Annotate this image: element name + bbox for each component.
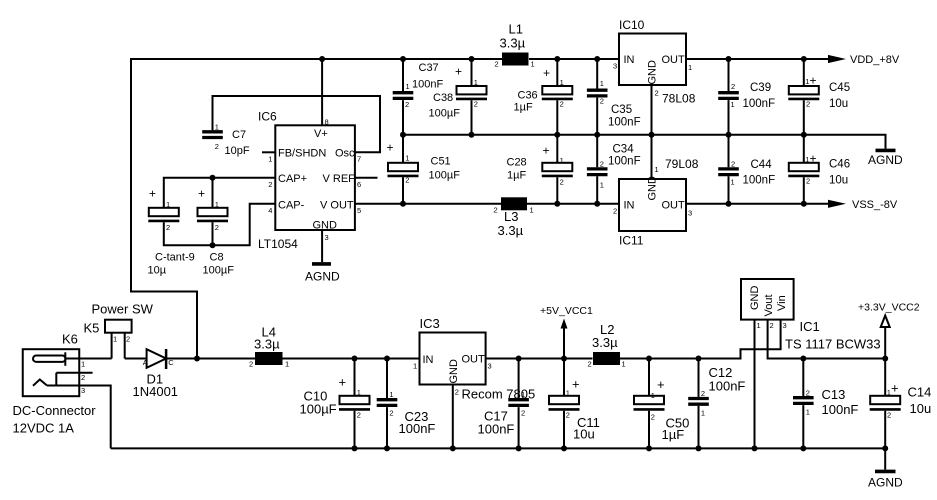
node C39 top junction [726, 56, 732, 62]
ground rail bottom [111, 447, 886, 449]
node C12 main rail junction [696, 356, 702, 362]
svg-text:C44: C44 [751, 159, 773, 171]
wire L4 to IC3 IN [283, 358, 420, 360]
svg-text:Osc: Osc [335, 148, 355, 160]
node CAP+ / C7 / C8 junction [210, 175, 216, 181]
node ground rail AGND corner [882, 445, 888, 451]
svg-text:IC1: IC1 [800, 319, 820, 334]
wire IC10 GND pin 2 to mid rail [651, 85, 653, 135]
svg-text:+: + [810, 151, 817, 165]
wire K5 pin 2 to diode D1 anode [125, 358, 147, 360]
svg-text:IC3: IC3 [420, 316, 440, 331]
svg-text:4: 4 [268, 206, 272, 215]
node ground rail C12 [696, 445, 702, 451]
K6 sleeve chevron symbol [33, 380, 47, 386]
node C23 main rail junction [384, 356, 390, 362]
svg-text:+: + [455, 65, 462, 79]
svg-text:VSS_-8V: VSS_-8V [852, 199, 898, 211]
node C10 main rail junction [352, 356, 358, 362]
svg-text:C46: C46 [829, 159, 850, 171]
regulator IC10 78L08 box [619, 34, 686, 86]
svg-text:100nF: 100nF [822, 402, 859, 417]
svg-text:OUT: OUT [662, 54, 686, 66]
svg-text:2: 2 [405, 100, 409, 109]
capacitor C44 100nF [728, 135, 730, 204]
capacitor C51 100uF (polarized) [402, 135, 404, 204]
IC IC6 LT1054 charge pump box [275, 125, 355, 230]
svg-text:1: 1 [113, 335, 117, 344]
wire IC11 GND pin 1 to mid rail [651, 135, 653, 179]
svg-text:2: 2 [566, 411, 570, 420]
svg-text:C-tant-9: C-tant-9 [155, 252, 195, 264]
svg-text:2: 2 [600, 160, 604, 169]
wire IC6 pin 3 GND down to AGND [321, 230, 323, 262]
svg-text:2: 2 [731, 160, 735, 169]
svg-text:2: 2 [731, 82, 735, 91]
ground AGND top right [876, 149, 896, 153]
svg-text:+: + [657, 377, 665, 392]
node C36 top junction [554, 56, 560, 62]
svg-text:2: 2 [806, 100, 810, 109]
svg-text:IC11: IC11 [619, 234, 644, 248]
wire IC3 OUT to L2 [486, 358, 593, 360]
svg-text:Vin: Vin [776, 295, 788, 311]
svg-text:OUT: OUT [662, 200, 686, 212]
node VSS rail C46 junction [801, 201, 807, 207]
svg-text:C36: C36 [518, 90, 538, 102]
wire IC6 pin 4 CAP- line to C-tant-9/C8 bottoms [164, 204, 275, 246]
capacitor C14 10u (polarized) [884, 359, 886, 449]
svg-text:3.3µ: 3.3µ [592, 335, 618, 350]
node VSS rail C28 junction [554, 201, 560, 207]
node +5V / C11 main rail junction [561, 356, 567, 362]
svg-text:1: 1 [406, 82, 410, 91]
capacitor C8 100uF (polarized) [198, 208, 228, 216]
node ground rail C23 [384, 445, 390, 451]
svg-text:+: + [543, 144, 550, 158]
node VSS rail C34 junction [594, 201, 600, 207]
svg-text:+: + [387, 141, 394, 155]
VSS_-8V arrow [828, 200, 846, 208]
svg-text:100nF: 100nF [478, 422, 515, 437]
svg-text:2: 2 [166, 223, 170, 232]
capacitor C38 100uF (polarized) [471, 59, 473, 135]
svg-text:1: 1 [757, 321, 761, 330]
ground AGND bottom right [884, 448, 886, 469]
node mid rail C35/C34 junction [594, 132, 600, 138]
wire K6 pin 3 to ground rail [47, 386, 111, 449]
capacitor C10 100uF (polarized) [354, 359, 356, 449]
wire IC10 OUT to VDD arrow [686, 58, 829, 60]
svg-text:1: 1 [731, 178, 735, 187]
wire top rail segment L1 to IC10 IN [529, 58, 619, 60]
svg-text:GND: GND [313, 220, 338, 232]
wire IC6 pin 8 V+ to top rail [321, 59, 323, 125]
svg-text:1: 1 [268, 155, 272, 164]
svg-text:C37: C37 [419, 62, 439, 74]
svg-text:2: 2 [806, 389, 810, 398]
inductor L1 3.3u [502, 53, 529, 66]
node ground rail IC3 GND [450, 445, 456, 451]
svg-text:1: 1 [806, 408, 810, 417]
svg-text:AGND: AGND [868, 476, 903, 490]
node ground rail C11 [561, 445, 567, 451]
svg-text:100nF: 100nF [608, 156, 641, 168]
node ground rail C13 [800, 445, 806, 451]
svg-text:1: 1 [357, 388, 361, 397]
wire IC11 OUT to VSS arrow [686, 203, 829, 205]
svg-text:1: 1 [600, 79, 604, 88]
svg-text:1: 1 [166, 200, 170, 209]
svg-text:1: 1 [560, 78, 564, 87]
svg-text:3: 3 [325, 233, 329, 242]
svg-text:AGND: AGND [868, 153, 903, 167]
svg-text:+: + [339, 375, 347, 390]
svg-text:1µF: 1µF [514, 102, 533, 114]
svg-text:GND: GND [647, 176, 659, 201]
node VSS rail C51 junction [400, 201, 406, 207]
svg-text:79L08: 79L08 [665, 157, 699, 171]
svg-text:C14: C14 [908, 385, 932, 400]
wire IC6 pin 1 FB/SHDN stub [262, 151, 275, 153]
svg-text:IC10: IC10 [619, 18, 645, 32]
svg-text:A: A [143, 358, 148, 367]
regulator IC1 TS 1117 BCW33 box [741, 279, 794, 320]
svg-text:100nF: 100nF [743, 98, 776, 110]
wire C8 top to junction [212, 178, 214, 208]
capacitor C12 100nF [698, 359, 700, 449]
svg-text:2: 2 [770, 321, 774, 330]
switch K5 Power SW [105, 320, 132, 333]
svg-text:78L08: 78L08 [662, 92, 696, 106]
node mid rail C38 junction [469, 132, 475, 138]
svg-text:GND: GND [448, 359, 460, 384]
node C8 bottom junction [210, 242, 216, 248]
svg-text:DC-Connector: DC-Connector [13, 403, 97, 418]
node +3.3V / C14 rail junction [882, 356, 888, 362]
svg-text:1: 1 [405, 154, 409, 163]
svg-text:2: 2 [455, 388, 459, 397]
node ground rail IC1 GND [752, 445, 758, 451]
svg-text:10pF: 10pF [225, 145, 250, 157]
inductor L3 3.3u [501, 197, 527, 210]
svg-text:1: 1 [560, 156, 564, 165]
svg-text:2: 2 [357, 411, 361, 420]
svg-text:Power SW: Power SW [92, 302, 154, 317]
svg-text:GND: GND [749, 286, 761, 311]
svg-text:2: 2 [81, 373, 85, 382]
capacitor C39 100nF [728, 59, 730, 135]
svg-text:100nF: 100nF [412, 79, 443, 91]
node C45 top junction [801, 56, 807, 62]
svg-text:2: 2 [215, 223, 219, 232]
svg-text:10u: 10u [829, 98, 848, 110]
svg-text:1: 1 [215, 200, 219, 209]
svg-text:5: 5 [357, 206, 361, 215]
svg-text:CAP-: CAP- [278, 199, 305, 211]
capacitor C50 1uF (polarized) [648, 359, 650, 449]
svg-text:C7: C7 [232, 129, 246, 141]
svg-text:100µF: 100µF [300, 402, 337, 417]
svg-text:L3: L3 [504, 209, 518, 224]
svg-text:3: 3 [81, 386, 85, 395]
svg-text:3: 3 [488, 362, 492, 371]
svg-text:2: 2 [521, 409, 525, 418]
svg-text:2: 2 [495, 60, 499, 69]
svg-text:100nF: 100nF [399, 421, 436, 436]
wire IC1 Vout pin 2 to 3.3V rail [768, 320, 886, 359]
wire IC1 GND pin 1 to ground rail [754, 320, 756, 449]
svg-text:2: 2 [560, 100, 564, 109]
svg-text:AGND: AGND [305, 270, 340, 284]
svg-text:7: 7 [357, 155, 361, 164]
svg-text:1: 1 [688, 63, 692, 72]
node mid rail C37/C51 junction [400, 132, 406, 138]
wire L2 to IC1 Vin [619, 320, 781, 359]
svg-text:K6: K6 [62, 332, 78, 347]
svg-text:FB/SHDN: FB/SHDN [278, 148, 326, 160]
svg-text:V+: V+ [314, 128, 328, 140]
svg-text:1: 1 [731, 100, 735, 109]
svg-text:1: 1 [389, 390, 393, 399]
node mid rail C45/C46 junction [801, 132, 807, 138]
inductor L2 3.3u [593, 352, 620, 365]
capacitor C35 100nF [596, 59, 598, 135]
svg-text:C28: C28 [507, 157, 527, 169]
node mid rail C36/C28 junction [554, 132, 560, 138]
svg-text:L1: L1 [509, 22, 523, 37]
svg-text:IN: IN [624, 54, 635, 66]
capacitor C37 100nF [402, 59, 404, 135]
capacitor C36 1uF (polarized) [556, 59, 558, 135]
svg-text:2: 2 [887, 411, 891, 420]
svg-text:2: 2 [494, 206, 498, 215]
diode D1 1N4001 [147, 349, 167, 368]
svg-text:CAP+: CAP+ [278, 173, 307, 185]
svg-text:VDD_+8V: VDD_+8V [850, 54, 900, 66]
node mid rail C39/C44 junction [726, 132, 732, 138]
svg-text:3.3µ: 3.3µ [254, 337, 280, 352]
svg-text:1: 1 [531, 60, 535, 69]
svg-text:2: 2 [806, 177, 810, 186]
svg-text:100nF: 100nF [608, 117, 641, 129]
svg-text:TS 1117 BCW33: TS 1117 BCW33 [785, 337, 881, 352]
svg-text:12VDC 1A: 12VDC 1A [13, 421, 75, 436]
svg-text:+: + [198, 187, 205, 201]
svg-text:2: 2 [600, 97, 604, 106]
svg-text:10u: 10u [910, 401, 932, 416]
svg-text:10u: 10u [829, 175, 848, 187]
capacitor C46 10u (polarized) [803, 135, 805, 204]
svg-text:2: 2 [389, 409, 393, 418]
svg-text:GND: GND [647, 60, 659, 85]
svg-text:1µF: 1µF [507, 170, 526, 182]
node ground rail C10 [352, 445, 358, 451]
svg-text:2: 2 [249, 360, 253, 369]
svg-text:+: + [149, 187, 156, 201]
svg-text:1: 1 [701, 409, 705, 418]
svg-text:8: 8 [325, 118, 329, 127]
svg-text:100µF: 100µF [429, 170, 461, 182]
capacitor C23 100nF [386, 359, 388, 449]
svg-text:IN: IN [624, 200, 635, 212]
svg-text:K5: K5 [84, 321, 100, 336]
wire top VDD rail left segment with left feed riser down to bottom section [131, 59, 502, 359]
svg-text:C45: C45 [829, 82, 850, 94]
svg-text:10u: 10u [573, 427, 595, 442]
node +5V_VCC1 supply arrow [563, 329, 565, 359]
wire VSS rail L3 to IC11 IN [527, 203, 619, 205]
svg-text:10µ: 10µ [148, 265, 167, 277]
node ground rail C50 [646, 445, 652, 451]
capacitor C28 1uF (polarized) [556, 135, 558, 204]
capacitor C13 100nF [802, 359, 804, 449]
svg-text:2: 2 [474, 100, 478, 109]
svg-text:2: 2 [268, 180, 272, 189]
svg-text:C35: C35 [611, 104, 632, 116]
node C13 3.3V rail junction [800, 356, 806, 362]
svg-text:C8: C8 [210, 252, 224, 264]
svg-text:3: 3 [613, 62, 617, 71]
svg-text:LT1054: LT1054 [258, 237, 298, 251]
ground AGND below IC6 [312, 262, 331, 266]
svg-text:1: 1 [600, 181, 604, 190]
svg-text:+: + [891, 381, 899, 396]
svg-text:1: 1 [81, 360, 85, 369]
svg-text:1: 1 [651, 391, 655, 400]
svg-text:1: 1 [655, 165, 659, 174]
svg-text:100µF: 100µF [429, 108, 461, 120]
capacitor C34 100nF [596, 135, 598, 204]
svg-text:3: 3 [688, 209, 692, 218]
svg-text:+: + [543, 66, 550, 80]
K6 center pin symbol [33, 356, 66, 362]
node VSS rail C44 junction [726, 201, 732, 207]
svg-text:2: 2 [651, 413, 655, 422]
capacitor C45 10u (polarized) [803, 59, 805, 135]
wire IC6 pin 2 CAP+ line to C7 bottom and C-tant-9 top [164, 178, 275, 208]
svg-text:OUT: OUT [462, 354, 486, 366]
wire D1 cathode to L4 [166, 358, 255, 360]
VDD_+8V arrow [828, 55, 846, 63]
wire IC6 pin 6 V REF stub [355, 177, 378, 179]
wire K6 pin 1 to switch K5 pin 1 [65, 358, 111, 360]
svg-text:IN: IN [423, 354, 434, 366]
svg-text:2: 2 [701, 389, 705, 398]
wire AGND mid rail [403, 135, 886, 149]
svg-text:2: 2 [405, 175, 409, 184]
svg-text:C38: C38 [433, 92, 453, 104]
node +3.3V_VCC2 supply arrow (open) [884, 327, 886, 359]
regulator IC3 Recom 7805 box [420, 333, 486, 385]
wire VSS rail V OUT to L3 [355, 203, 501, 205]
regulator IC11 79L08 box [619, 179, 686, 231]
svg-text:1: 1 [215, 123, 219, 132]
node C37 top junction [400, 56, 406, 62]
wire IC3 GND pin 2 to ground rail [452, 385, 454, 449]
svg-text:2: 2 [588, 360, 592, 369]
svg-text:1: 1 [474, 78, 478, 87]
node mid rail regulators GND junction [649, 132, 655, 138]
svg-text:2: 2 [655, 89, 659, 98]
svg-text:100µF: 100µF [203, 265, 235, 277]
node C17 main rail junction [516, 356, 522, 362]
svg-text:1: 1 [521, 390, 525, 399]
svg-text:1: 1 [413, 362, 417, 371]
node V+ junction on top rail [319, 56, 325, 62]
svg-text:C51: C51 [431, 156, 451, 168]
svg-text:C34: C34 [613, 144, 635, 156]
K6 switch contact symbol [55, 373, 57, 386]
svg-text:1: 1 [530, 206, 534, 215]
inductor L4 3.3u [255, 352, 283, 365]
svg-text:2: 2 [215, 142, 219, 151]
svg-text:1N4001: 1N4001 [133, 384, 179, 399]
svg-text:Vout: Vout [763, 294, 775, 316]
node ground rail C17 [516, 445, 522, 451]
svg-text:C13: C13 [822, 387, 846, 402]
svg-text:V OUT: V OUT [320, 199, 354, 211]
capacitor C-tant-9 10u (polarized) [149, 208, 179, 216]
svg-text:+: + [572, 377, 580, 392]
svg-text:1: 1 [887, 388, 891, 397]
svg-text:2: 2 [126, 335, 130, 344]
capacitor C7 10pF [202, 132, 223, 138]
node C38 top junction [469, 56, 475, 62]
node C50 main rail junction [646, 356, 652, 362]
svg-text:100nF: 100nF [743, 175, 776, 187]
svg-text:V REF: V REF [323, 173, 356, 185]
svg-text:1µF: 1µF [662, 427, 685, 442]
svg-text:3.3µ: 3.3µ [498, 223, 524, 238]
svg-text:3: 3 [783, 321, 787, 330]
svg-text:2: 2 [560, 178, 564, 187]
svg-text:1: 1 [622, 360, 626, 369]
svg-text:3.3µ: 3.3µ [500, 36, 526, 51]
svg-text:C39: C39 [750, 82, 771, 94]
capacitor C11 10u (polarized) [563, 359, 565, 449]
capacitor C17 100nF [518, 359, 520, 449]
svg-text:+3.3V_VCC2: +3.3V_VCC2 [858, 302, 920, 314]
svg-text:IC6: IC6 [258, 110, 277, 124]
svg-text:+5V_VCC1: +5V_VCC1 [540, 305, 593, 317]
svg-text:+: + [810, 74, 817, 88]
node C35 top junction [594, 56, 600, 62]
svg-text:1: 1 [285, 360, 289, 369]
connector K6 DC-Connector box [23, 349, 80, 396]
svg-text:100nF: 100nF [709, 379, 746, 394]
svg-text:6: 6 [357, 180, 361, 189]
wire K6 pin 2 stub [56, 372, 92, 374]
wire IC6 pin 7 Osc to C7 top [213, 96, 381, 152]
wire C8 bottom to CAP- line [212, 222, 214, 245]
svg-text:2: 2 [613, 207, 617, 216]
node junction of top-section feed on main rail [194, 356, 200, 362]
svg-text:1: 1 [566, 388, 570, 397]
